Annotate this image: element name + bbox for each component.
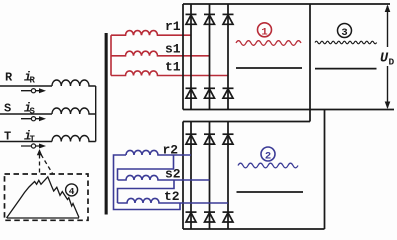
node circle 4 [66, 184, 78, 197]
top rectifier box left edge [182, 4, 184, 110]
wire delta link s2-r2 [118, 155, 174, 180]
callout dashed right [41, 155, 53, 174]
diode D6 [223, 88, 234, 98]
diode D10 [186, 212, 197, 222]
bridge2 leg b [209, 122, 211, 230]
inductor primary T [52, 135, 96, 141]
wire wye bus primary [95, 86, 97, 142]
node circle 3 [338, 24, 352, 40]
svg-text:r1: r1 [165, 19, 181, 34]
waveform box2 [238, 163, 298, 168]
bottom rectifier box left edge [182, 122, 184, 230]
bottom rectifier box right edge [324, 110, 326, 230]
top rectifier box bottom edge [183, 109, 394, 111]
bottom rectifier box top edge [183, 121, 310, 123]
callout dashed left [39, 155, 41, 174]
dc level box2 [237, 191, 304, 193]
waveform box3 [315, 41, 377, 44]
diode D12 [223, 212, 234, 222]
bridge1 leg c [227, 4, 229, 110]
bridge2 leg a [190, 122, 192, 230]
winding r2 [126, 150, 191, 155]
node circle 1 [258, 23, 272, 39]
diode D2 [204, 14, 215, 24]
diode D9 [223, 134, 234, 144]
svg-text:1: 1 [261, 26, 267, 38]
svg-text:2: 2 [265, 151, 271, 163]
svg-text:r2: r2 [163, 143, 179, 158]
svg-text:t2: t2 [164, 189, 180, 204]
current arrow iT [21, 145, 42, 147]
bridge1 leg b [209, 4, 211, 110]
bridge1 leg a [190, 4, 192, 110]
current arrow iR [21, 90, 42, 92]
label UD [380, 52, 395, 68]
wire T input [0, 141, 52, 143]
winding t1 [111, 71, 228, 76]
diode D3 [223, 14, 234, 24]
svg-text:s1: s1 [165, 42, 181, 57]
wire delta link t2-s2 [118, 180, 175, 203]
svg-text:4: 4 [69, 186, 75, 197]
current arrow iS [21, 118, 42, 120]
box4 dashed frame [5, 174, 89, 220]
callout arrowhead [37, 149, 42, 155]
svg-text:R: R [5, 71, 13, 85]
svg-text:D: D [389, 57, 395, 68]
transformer core [105, 33, 108, 215]
waveform box1 [236, 41, 301, 46]
waveform mountain [7, 177, 80, 218]
node circle 2 [261, 147, 275, 163]
wire S input [0, 113, 52, 115]
svg-text:3: 3 [341, 27, 347, 39]
wire R input [0, 85, 52, 87]
diode D11 [204, 212, 215, 222]
dc level box1 [236, 67, 302, 69]
diode D7 [186, 134, 197, 144]
bottom rectifier box bottom edge [183, 228, 325, 230]
winding s1 [111, 51, 210, 56]
waveform baseline [7, 217, 79, 219]
diode D4 [186, 88, 197, 98]
inductor primary R [52, 80, 96, 86]
diode D5 [204, 88, 215, 98]
winding t2 [118, 198, 229, 203]
svg-text:t1: t1 [165, 60, 181, 75]
inductor primary S [52, 108, 96, 114]
svg-text:S: S [30, 107, 36, 117]
diode D8 [204, 134, 215, 144]
svg-text:T: T [30, 135, 36, 145]
dc level box3 [315, 68, 377, 70]
winding s2 [118, 175, 210, 180]
diode D1 [186, 14, 197, 24]
svg-text:s2: s2 [165, 167, 181, 182]
svg-text:R: R [30, 76, 36, 86]
wire red star bus [110, 35, 112, 75]
wire delta outer r2-t2 [114, 155, 181, 210]
divider box1/box3 [309, 4, 311, 122]
top rectifier box top edge [183, 3, 390, 5]
bridge2 leg c [227, 122, 229, 230]
winding r1 [111, 31, 191, 36]
measurement arrow UD [385, 5, 391, 110]
